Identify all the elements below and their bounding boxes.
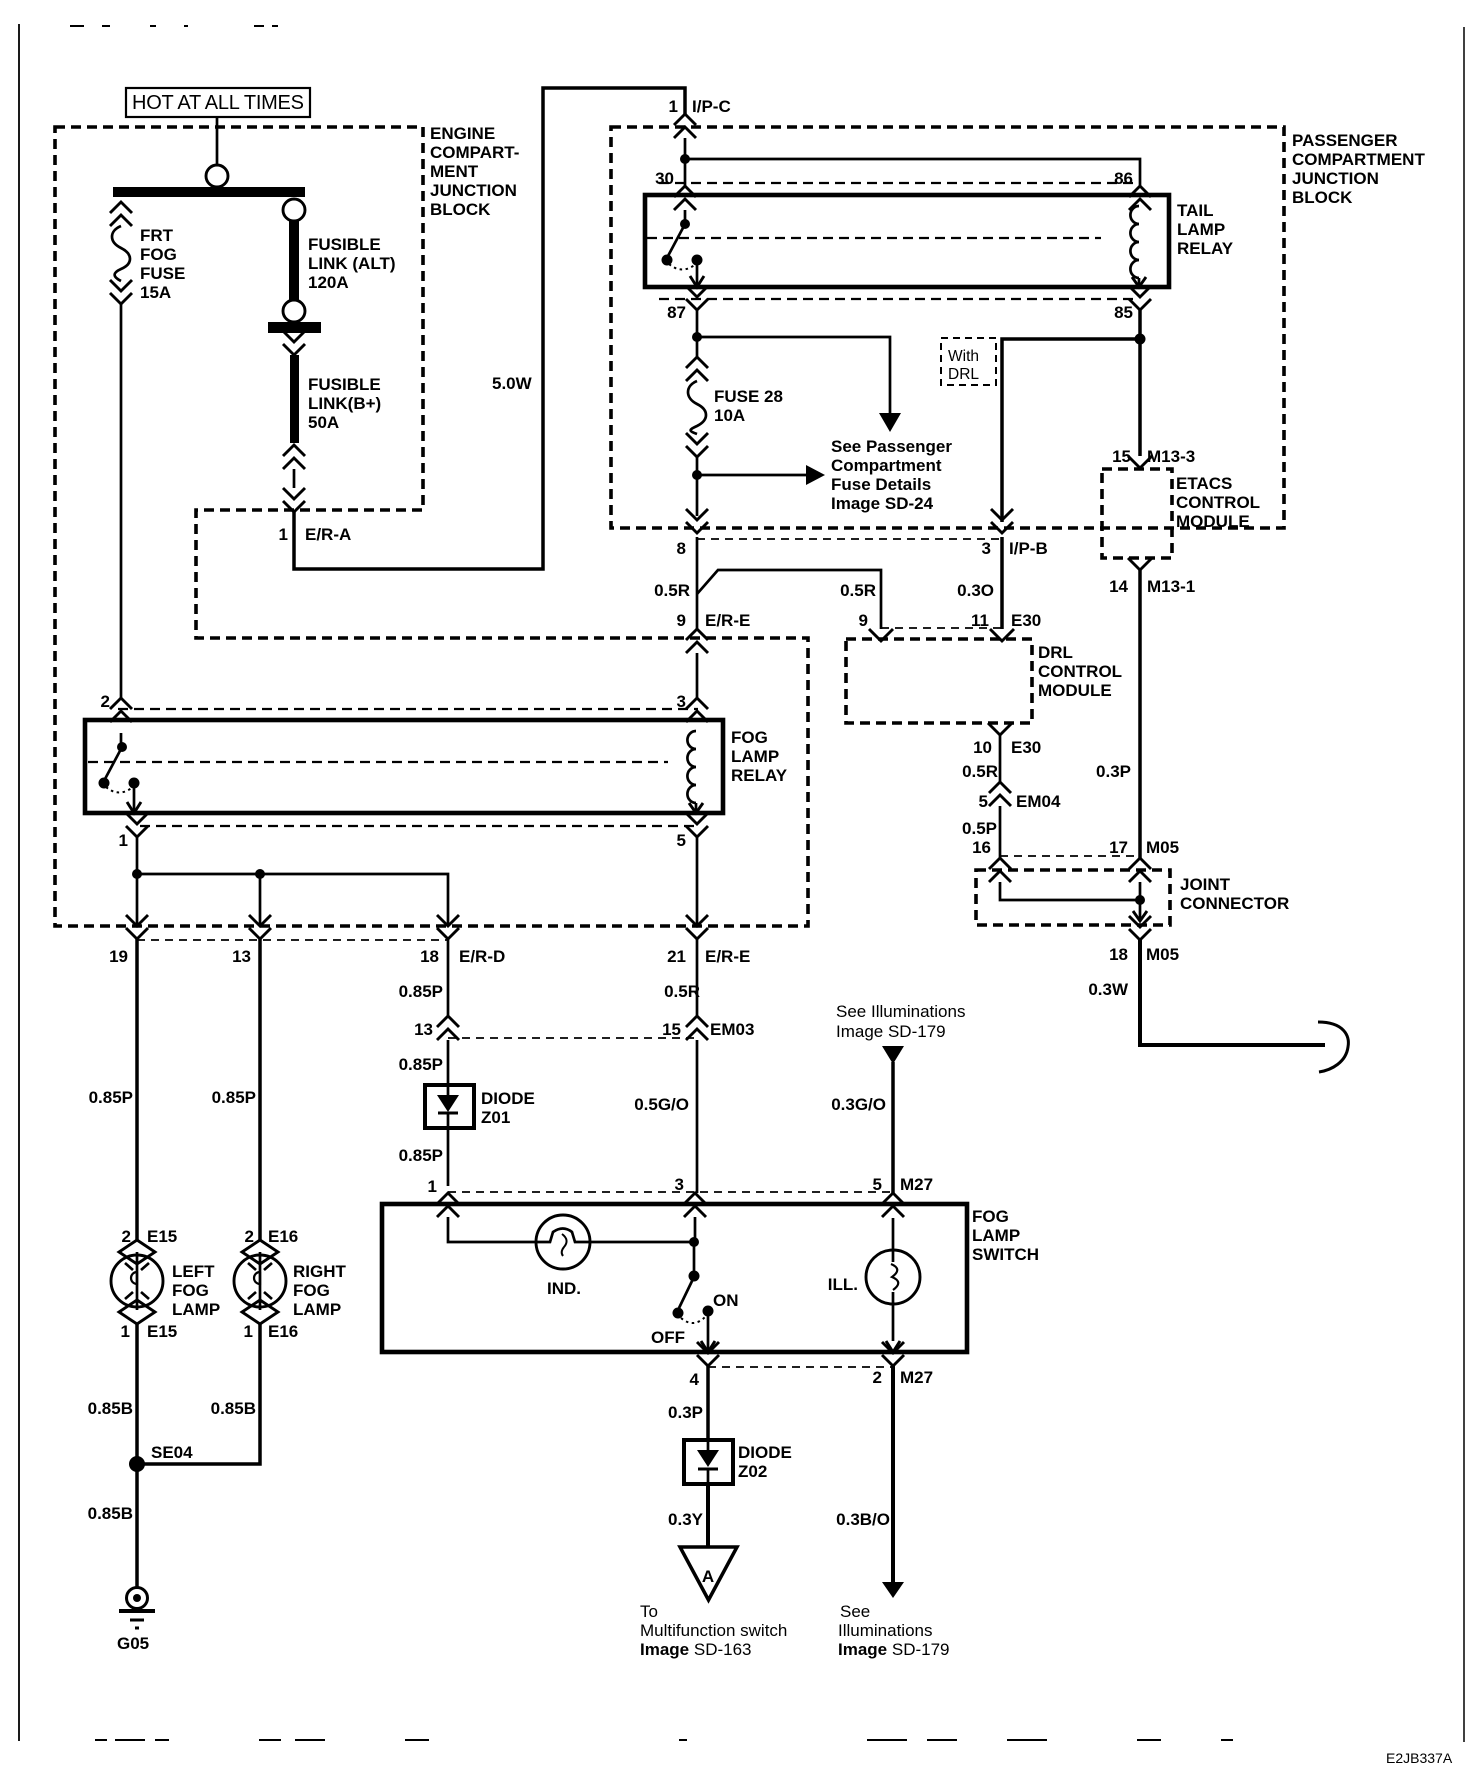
wire E/R-A to I/P-C (5.0W run) [294,88,685,569]
svg-text:15: 15 [662,1020,681,1039]
wire 2 M27 to illuminations [891,1366,895,1582]
svg-text:MODULE: MODULE [1038,681,1112,700]
svg-text:See Illuminations: See Illuminations [836,1002,965,1021]
fog lamp relay internal dashed [88,761,668,763]
tail relay coil [1130,206,1139,287]
connector pin 2 fog relay [110,698,132,722]
wire 9 E/R-E to fog relay pin 3 [696,653,699,698]
svg-text:2: 2 [245,1227,254,1246]
fuse FUSE 28 10A [688,381,706,434]
svg-text:JUNCTION: JUNCTION [1292,169,1379,188]
node junction at 30/86 [680,154,690,164]
svg-text:M13-3: M13-3 [1147,447,1195,466]
node junction 85 [1135,334,1146,345]
svg-text:M13-1: M13-1 [1147,577,1195,596]
switch S1 fog lamp switch box [382,1204,967,1352]
svg-text:18: 18 [1109,945,1128,964]
label DRL CONTROL MODULE [1038,643,1122,700]
DRL control module dashed box [846,639,1032,723]
lamp left fog lamp [111,1252,163,1310]
wire pin5 down [696,837,699,926]
connector 9 E30 [869,629,893,641]
svg-text:RELAY: RELAY [731,766,788,785]
page border left [18,24,20,1741]
svg-text:30: 30 [655,169,674,188]
label 2 M27 [873,1368,934,1387]
arrow pointing right to fuse details text [697,474,806,477]
label FUSIBLE LINK (ALT) 120A [308,235,396,292]
label 1 E16 [244,1322,299,1341]
wire EM04 to 16 [999,806,1002,858]
wire fuse to fog lamp relay pin 2 [120,304,123,698]
connector below link B+ [283,445,305,469]
svg-text:G05: G05 [117,1634,149,1653]
label passenger compartment junction block [1292,131,1425,207]
svg-text:0.5P: 0.5P [962,819,997,838]
label 1 E/R-A [279,525,352,544]
svg-text:0.85B: 0.85B [88,1399,133,1418]
connector pin 86 [1129,186,1151,210]
svg-text:LEFT: LEFT [172,1262,215,1281]
label 15 EM03 [662,1020,754,1039]
connector 11 E30 [990,629,1014,641]
label FUSIBLE LINK(B+) 50A [308,375,381,432]
continuation squiggle [1318,1022,1348,1072]
svg-text:2: 2 [873,1368,882,1387]
svg-text:Z01: Z01 [481,1108,510,1127]
arrow from illuminations [882,1046,904,1064]
switch blade assembly [673,1242,716,1352]
wire 8 down to 9 [696,537,699,629]
wire branch to 13 and 18 [137,874,448,926]
svg-text:2: 2 [101,692,110,711]
wire pin3 into box [694,1217,697,1242]
svg-text:Image SD-163: Image SD-163 [640,1640,752,1659]
dashed link 13 to 15 [448,1037,697,1039]
svg-text:MENT: MENT [430,162,479,181]
connector 10 E30 [988,723,1012,735]
label 18 M05 [1109,945,1179,964]
svg-text:LAMP: LAMP [972,1226,1020,1245]
connector 1 E16 diamond [242,1300,278,1324]
wire Z02 to connector A [706,1484,710,1547]
svg-text:SWITCH: SWITCH [972,1245,1039,1264]
svg-text:FOG: FOG [140,245,177,264]
label see illuminations bottom [838,1602,950,1659]
svg-text:13: 13 [414,1020,433,1039]
label 18 E/R-D [420,947,505,966]
svg-text:1: 1 [244,1322,253,1341]
svg-text:0.85B: 0.85B [211,1399,256,1418]
svg-text:E16: E16 [268,1227,298,1246]
fog relay coil [687,731,696,813]
svg-text:HOT AT ALL TIMES: HOT AT ALL TIMES [132,92,304,114]
connector 1 E/R-A [283,488,305,512]
svg-text:0.3B/O: 0.3B/O [836,1510,890,1529]
svg-text:0.85P: 0.85P [399,1055,443,1074]
svg-text:10A: 10A [714,406,745,425]
svg-text:4: 4 [690,1370,700,1389]
svg-text:17: 17 [1109,838,1128,857]
wire illumination to switch pin 5 [891,1062,895,1193]
label DIODE Z02 [738,1443,792,1481]
tail lamp relay internal dashed [647,237,1101,239]
svg-text:IND.: IND. [547,1279,581,1298]
svg-text:M05: M05 [1146,838,1179,857]
svg-text:FUSE 28: FUSE 28 [714,387,783,406]
svg-text:E/R-D: E/R-D [459,947,505,966]
wire link to E/R-A [293,469,296,488]
ILL bottom arrowhead [886,1341,900,1352]
connector 2 E15 diamond [119,1240,155,1264]
svg-text:16: 16 [972,838,991,857]
page edge dashes bottom [95,1739,1233,1741]
svg-text:FUSE: FUSE [140,264,185,283]
svg-text:0.5G/O: 0.5G/O [634,1095,689,1114]
svg-text:0.5R: 0.5R [654,581,690,600]
wire pin1 to IND lamp [448,1217,536,1242]
connector 5 M27 [882,1193,904,1217]
label ETACS CONTROL MODULE [1176,474,1260,531]
tail lamp relay dashed top [659,182,1134,184]
node junction 19 branch [132,869,142,879]
svg-text:0.3P: 0.3P [1096,762,1131,781]
svg-text:CONNECTOR: CONNECTOR [1180,894,1289,913]
label DIODE Z01 [481,1089,535,1127]
svg-text:9: 9 [859,611,868,630]
dashed link 8 to 3 [697,538,1002,540]
svg-text:5: 5 [979,792,988,811]
wire I/P-B to E30 11 [1000,537,1004,629]
passenger compartment junction block dashed outline [611,127,1284,528]
svg-text:E16: E16 [268,1322,298,1341]
fuse 28 connector top [686,357,708,381]
svg-text:SE04: SE04 [151,1443,193,1462]
node junction below fuse [692,470,702,480]
page border right [1463,27,1465,1742]
ETACS control module dashed box [1102,469,1172,558]
lamp right fog lamp [234,1252,286,1310]
svg-text:E/R-A: E/R-A [305,525,351,544]
fog relay switch blade [99,733,142,813]
connector pin 5 fog relay [686,813,708,837]
label 5 EM04 [979,792,1061,811]
svg-text:120A: 120A [308,273,349,292]
wire left lamp to SE04 [135,1324,139,1588]
svg-text:E15: E15 [147,1322,177,1341]
bus ring terminal circle [206,165,228,187]
svg-text:E/R-E: E/R-E [705,611,750,630]
svg-text:ETACS: ETACS [1176,474,1232,493]
label 3 I/P-B [982,539,1048,558]
svg-text:E30: E30 [1011,738,1041,757]
svg-text:FRT: FRT [140,226,174,245]
label 2 E15 [122,1227,178,1246]
label see illuminations top [836,1002,965,1041]
label 14 M13-1 [1109,577,1195,596]
svg-text:8: 8 [677,539,686,558]
arrow to illuminations bottom [882,1582,904,1598]
connector 21 E/R-E [686,915,708,939]
svg-text:50A: 50A [308,413,339,432]
label FOG LAMP SWITCH [972,1207,1039,1264]
fuse FRT FOG FUSE element [112,226,130,281]
joint connector internal wires [1000,882,1147,921]
wire HOT feed down to bus [216,117,219,165]
label FRT FOG FUSE 15A [140,226,185,302]
label TAIL LAMP RELAY [1177,201,1234,258]
node junction 13 branch [255,869,265,879]
node SE04 [129,1456,145,1472]
svg-text:COMPARTMENT: COMPARTMENT [1292,150,1425,169]
arrow to fuse details [879,413,901,432]
connector 2 E16 diamond [242,1240,278,1264]
svg-text:0.3Y: 0.3Y [668,1510,704,1529]
connector 1 switch [437,1193,459,1217]
wire 4 to diode Z02 [706,1366,710,1440]
connector 18 E/R-D [437,915,459,939]
svg-text:2: 2 [122,1227,131,1246]
svg-text:14: 14 [1109,577,1128,596]
label 5 M27 [873,1175,934,1194]
svg-text:OFF: OFF [651,1328,685,1347]
fuse 28 connector bottom [686,433,708,457]
svg-text:0.85P: 0.85P [212,1088,256,1107]
wire I/P-C down to relay pin 30 [684,138,687,186]
svg-text:13: 13 [232,947,251,966]
svg-text:RELAY: RELAY [1177,239,1234,258]
dashed link 19-13-18 [137,939,448,941]
wire M13-1 down to 17 M05 [1138,570,1142,858]
connector 9 E/R-E [686,629,708,653]
fog lamp relay dashed bottom [140,825,696,827]
wire Z01 to switch pin 1 [447,1128,450,1186]
wire branch diagonal to E30 9 [697,570,881,629]
svg-text:Multifunction switch: Multifunction switch [640,1621,787,1640]
wire 13 to diode Z01 [447,1040,450,1085]
label 9 E/R-E [677,611,751,630]
wire branch to SD-24 arrow [697,337,890,413]
svg-text:FOG: FOG [293,1281,330,1300]
connector below bar [283,331,305,355]
engine compartment junction block dashed outline [55,127,808,926]
connector pin 3 fog relay [686,698,708,722]
svg-text:Z02: Z02 [738,1462,767,1481]
wire right lamp to SE04 [137,1324,260,1464]
connector 1 I/P-C [674,114,696,138]
svg-text:LAMP: LAMP [172,1300,220,1319]
wire fuse28 to pin 8 [696,457,699,516]
svg-text:ENGINE: ENGINE [430,124,495,143]
label to multifunction switch [640,1602,787,1659]
connector 3 switch [684,1193,706,1217]
wire to pin 86 [685,159,1140,186]
svg-text:FOG: FOG [172,1281,209,1300]
svg-text:TAIL: TAIL [1177,201,1214,220]
HOT AT ALL TIMES box [126,88,310,117]
fusible link ALT top circle [283,199,305,221]
svg-text:0.3P: 0.3P [668,1403,703,1422]
joint connector dashed box [976,870,1170,925]
svg-text:3: 3 [982,539,991,558]
page edge dashes top [70,25,278,27]
fusible link B+ top bar [268,322,321,333]
lamp ILL [866,1218,920,1341]
fusible link ALT bottom circle [283,300,305,322]
svg-text:DIODE: DIODE [738,1443,792,1462]
svg-text:LINK (ALT): LINK (ALT) [308,254,396,273]
svg-text:M05: M05 [1146,945,1179,964]
label JOINT CONNECTOR [1180,875,1289,913]
svg-text:EM04: EM04 [1016,792,1061,811]
svg-text:FUSIBLE: FUSIBLE [308,235,381,254]
label 1 E15 [121,1322,178,1341]
connector pin 87 [686,286,708,310]
node junction 87 branch [692,332,702,342]
svg-text:I/P-C: I/P-C [692,97,731,116]
svg-text:Fuse Details: Fuse Details [831,475,931,494]
wire 19 to left fog lamp [135,939,139,1240]
svg-text:JUNCTION: JUNCTION [430,181,517,200]
svg-text:0.85P: 0.85P [399,1146,443,1165]
fog lamp relay dashed top [118,708,698,710]
node junction IND [689,1237,699,1247]
connector 18 M05 [1129,916,1151,940]
svg-text:See Passenger: See Passenger [831,437,952,456]
svg-text:21: 21 [667,947,686,966]
connector 15 EM03 [686,1016,708,1040]
svg-text:CONTROL: CONTROL [1176,493,1260,512]
svg-text:LAMP: LAMP [293,1300,341,1319]
svg-text:18: 18 [420,947,439,966]
wire 10 to EM04 [999,735,1002,782]
fusible link B+ body [290,355,299,443]
FRT FOG FUSE 15A connector top [110,202,132,226]
lamp IND [536,1215,590,1269]
wire pin1 to branch node [136,837,139,926]
svg-text:1: 1 [669,97,678,116]
FRT FOG FUSE connector bottom [110,280,132,304]
connector pin 85 [1129,286,1151,310]
node A triangle [680,1547,737,1600]
svg-text:1: 1 [119,831,128,850]
wire 21 to 15 [696,939,699,1016]
connector 1 E15 diamond [119,1300,155,1324]
connector 4 switch [697,1342,719,1366]
label see passenger compartment fuse details [831,437,952,513]
svg-text:Compartment: Compartment [831,456,942,475]
svg-text:PASSENGER: PASSENGER [1292,131,1398,150]
With DRL dashed box [941,338,996,385]
svg-text:BLOCK: BLOCK [1292,188,1353,207]
connector 13 EM03 [437,1016,459,1040]
label LEFT FOG LAMP [172,1262,220,1319]
fusible link ALT body [289,221,299,300]
svg-text:Illuminations: Illuminations [838,1621,933,1640]
svg-text:ILL.: ILL. [828,1275,858,1294]
svg-text:19: 19 [109,947,128,966]
svg-text:5: 5 [677,831,686,850]
wire 87 to fuse 28 [696,310,699,357]
diode Z02 [684,1440,733,1484]
svg-text:BLOCK: BLOCK [430,200,491,219]
svg-text:LAMP: LAMP [731,747,779,766]
wire 13 to right fog lamp [258,939,262,1240]
svg-text:RIGHT: RIGHT [293,1262,347,1281]
connector 17 M05 [1129,858,1151,882]
svg-text:1: 1 [279,525,288,544]
svg-text:1: 1 [121,1322,130,1341]
svg-text:LAMP: LAMP [1177,220,1225,239]
svg-text:0.3G/O: 0.3G/O [831,1095,886,1114]
svg-text:0.85P: 0.85P [89,1088,133,1107]
relay U2 fog lamp relay box [85,720,723,813]
svg-text:Image SD-179: Image SD-179 [836,1022,946,1041]
svg-text:0.5R: 0.5R [840,581,876,600]
svg-text:E30: E30 [1011,611,1041,630]
svg-text:FOG: FOG [972,1207,1009,1226]
wire 85 to I/P-B [1138,310,1142,339]
diode Z01 [425,1085,474,1128]
label 11 E30 [971,611,1041,630]
svg-text:I/P-B: I/P-B [1009,539,1048,558]
svg-text:M27: M27 [900,1175,933,1194]
connector 19 [126,915,148,939]
label 15 M13-3 [1112,447,1195,466]
svg-text:CONTROL: CONTROL [1038,662,1122,681]
wire to pin 13 [259,874,262,926]
ground G05 [119,1588,155,1629]
label 2 E16 [245,1227,299,1246]
svg-text:LINK(B+): LINK(B+) [308,394,381,413]
svg-text:1: 1 [428,1177,437,1196]
svg-text:E2JB337A: E2JB337A [1386,1750,1453,1766]
connector 13 [249,915,271,939]
dashed link 1-3-5 [448,1191,893,1193]
svg-text:0.85B: 0.85B [88,1504,133,1523]
connector 8 E/R-E top [686,509,708,533]
svg-text:DRL: DRL [1038,643,1073,662]
svg-text:M27: M27 [900,1368,933,1387]
label 21 E/R-E [667,947,750,966]
connector 3 I/P-B [991,509,1013,533]
svg-text:E/R-E: E/R-E [705,947,750,966]
svg-text:A: A [702,1567,714,1586]
wire 18 to connector 13 [447,939,450,1016]
dashed link 9 to 11 [881,627,1002,629]
wire M13 column from node 85 [1138,339,1142,456]
relay U1 tail lamp relay box [645,195,1169,287]
svg-text:0.3W: 0.3W [1088,980,1129,999]
svg-text:DIODE: DIODE [481,1089,535,1108]
svg-text:86: 86 [1114,169,1133,188]
svg-text:DRL: DRL [948,366,979,383]
connector 2 M27 [882,1342,904,1366]
label RIGHT FOG LAMP [293,1262,347,1319]
svg-text:FOG: FOG [731,728,768,747]
svg-text:0.5R: 0.5R [962,762,998,781]
svg-text:5.0W: 5.0W [492,374,533,393]
svg-text:15A: 15A [140,283,171,302]
connector pin 1 fog relay [126,813,148,837]
bus bar [113,187,305,197]
label FOG LAMP RELAY [731,728,788,785]
svg-text:3: 3 [677,692,686,711]
connector 15 M13-3 [1128,456,1152,468]
tail relay switch blade [662,210,705,287]
svg-text:85: 85 [1114,303,1133,322]
svg-text:With: With [948,348,979,365]
